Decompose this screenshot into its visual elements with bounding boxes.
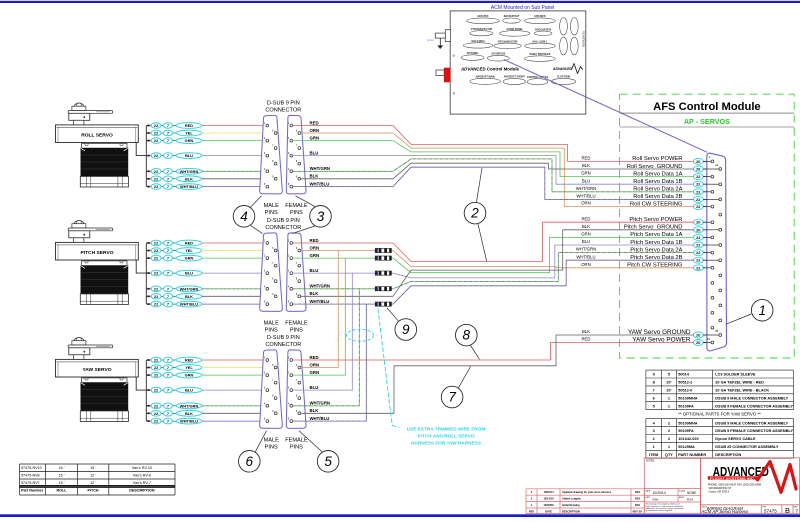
cyan note leader xyxy=(378,309,399,427)
balloon callout 7 xyxy=(441,386,463,408)
svg-text:20': 20' xyxy=(666,381,671,385)
svg-text:Van's RV-10: Van's RV-10 xyxy=(132,466,152,470)
svg-text:or used without written approv: or used without written approval. xyxy=(646,509,674,512)
ACM cutout AIRCRAFT FRONT xyxy=(503,76,525,85)
cyan splice highlight ellipse xyxy=(347,329,374,341)
svg-text:DESCRIPTION: DESCRIPTION xyxy=(129,489,155,493)
svg-text:50512-0: 50512-0 xyxy=(678,389,692,393)
svg-text:RED: RED xyxy=(581,337,590,342)
wire pitch BLK xyxy=(301,230,694,296)
title block frame xyxy=(701,458,800,514)
ACM cutout PANEL SWITCHES xyxy=(525,53,556,61)
svg-text:20: 20 xyxy=(696,167,700,172)
roll wire gauge leads xyxy=(136,123,202,190)
wire roll BLK xyxy=(301,163,694,179)
svg-text:DATE: DATE xyxy=(545,509,552,513)
svg-text:RS NETWORK: RS NETWORK xyxy=(582,31,585,48)
AFS row label Roll Servo GROUND xyxy=(627,164,722,172)
pitch servo xyxy=(56,221,139,305)
roll module wire color labels xyxy=(576,156,597,206)
svg-text:DSUB 9 FEMALE CONNECTOR ASSEMB: DSUB 9 FEMALE CONNECTOR ASSEMBLY xyxy=(715,429,793,433)
ACM ground symbol xyxy=(438,38,443,49)
svg-text:ORN: ORN xyxy=(581,201,591,206)
svg-text:5: 5 xyxy=(668,373,670,377)
pitch module wire color labels xyxy=(576,216,597,267)
ACM red connector xyxy=(436,68,450,82)
svg-text:15 ': 15 ' xyxy=(59,481,65,485)
svg-text:PHONE: (503) 263-6637 FAX: (: PHONE: (503) 263-6637 FAX: (503) 263-638… xyxy=(708,482,762,486)
wire pitch WHT/GRN xyxy=(293,253,694,289)
balloon 5 leader xyxy=(299,431,322,452)
notes / date block xyxy=(644,458,700,514)
svg-text:50109MNA: 50109MNA xyxy=(678,421,697,425)
svg-text:7: 7 xyxy=(795,509,798,515)
svg-text:DESCRIPTION: DESCRIPTION xyxy=(562,509,580,513)
svg-text:DSUB 25 CONNECTOR ASSEMBLY: DSUB 25 CONNECTOR ASSEMBLY xyxy=(715,445,779,449)
svg-text:326 REDWOOD ST: 326 REDWOOD ST xyxy=(709,486,732,490)
ACM cutout EFIS MFD xyxy=(525,15,556,24)
svg-text:101342-020: 101342-020 xyxy=(678,437,698,441)
balloon callout 1 xyxy=(751,299,773,321)
svg-text:Updated drawing for yaw servo: Updated drawing for yaw servo harness xyxy=(562,490,612,494)
svg-text:Part Number: Part Number xyxy=(21,489,44,493)
svg-text:DESCRIPTION: DESCRIPTION xyxy=(715,453,741,457)
balloon 4 leaders xyxy=(251,196,262,207)
svg-text:8: 8 xyxy=(463,328,471,343)
svg-text:USE EXTRA TRIMMED WIRE FROM: USE EXTRA TRIMMED WIRE FROM xyxy=(407,427,486,432)
AFS row label Pitch Servo Data 1A xyxy=(630,232,714,240)
solder sleeve at y=273.1 xyxy=(375,271,391,275)
ACM cutout NAV-COM-2 xyxy=(463,40,493,48)
wire pitch RED xyxy=(293,222,694,261)
svg-text:12 VDC: 12 VDC xyxy=(427,40,435,42)
svg-text:Canby, OR 97013: Canby, OR 97013 xyxy=(709,490,730,494)
svg-text:1: 1 xyxy=(668,404,670,408)
AFS logo ADVANCED xyxy=(708,465,774,480)
cyan note text xyxy=(407,427,486,446)
svg-text:57475-RV10: 57475-RV10 xyxy=(21,466,42,470)
svg-text:DSUB 9 MALE CONNECTOR ASSEMBLY: DSUB 9 MALE CONNECTOR ASSEMBLY xyxy=(715,396,788,400)
balloon 6 leader xyxy=(255,431,266,452)
svg-text:2: 2 xyxy=(470,206,479,221)
svg-text:50109MNA: 50109MNA xyxy=(678,396,697,400)
wire pitch GRN xyxy=(293,237,694,272)
pitch D-SUB 9 connector pair xyxy=(260,218,308,333)
ACM panel outline xyxy=(450,11,586,114)
wire roll WHT/GRN xyxy=(293,159,694,192)
svg-text:ORN: ORN xyxy=(581,262,591,267)
svg-text:12 ': 12 ' xyxy=(90,481,96,485)
pitch harness wire labels xyxy=(310,238,331,304)
svg-text:8: 8 xyxy=(653,381,655,385)
svg-text:ACM AP Servo Harness: ACM AP Servo Harness xyxy=(701,509,750,514)
DSUB25 unconnected pins xyxy=(711,213,722,329)
svg-text:QTY: QTY xyxy=(665,453,673,457)
svg-text:BLK: BLK xyxy=(582,224,590,229)
svg-text:15 ': 15 ' xyxy=(90,466,96,470)
balloon callout 3 xyxy=(310,206,332,228)
svg-text:20: 20 xyxy=(696,220,700,225)
AFS row label YAW Servo POWER xyxy=(632,336,714,345)
svg-text:50109FA: 50109FA xyxy=(678,429,694,433)
svg-text:BLK: BLK xyxy=(582,329,590,334)
solder sleeve at y=258.1 xyxy=(375,256,391,260)
AFS row label Roll CW STEERING xyxy=(630,201,714,209)
svg-text:REV BY: REV BY xyxy=(633,509,643,513)
svg-text:ROLL SERVO: ROLL SERVO xyxy=(81,133,113,139)
ACM cutout CONTROL STICKS xyxy=(527,76,549,85)
solder sleeve at y=304.1 xyxy=(375,302,391,306)
svg-text:ADVANCED: ADVANCED xyxy=(552,67,573,71)
AFS row label Roll Servo Data 1B xyxy=(633,179,721,187)
svg-text:2: 2 xyxy=(668,429,670,433)
AFS row label Pitch CW STEERING xyxy=(627,263,714,271)
svg-text:BLU: BLU xyxy=(582,178,590,183)
svg-text:10/20/14: 10/20/14 xyxy=(653,491,666,495)
roll input wires to male pins xyxy=(202,126,274,187)
ACM cutout EFIS PFD xyxy=(467,15,500,24)
svg-text:3: 3 xyxy=(317,209,325,224)
ACM cutout GPS NAVIGATOR xyxy=(494,40,521,48)
svg-text:5: 5 xyxy=(324,454,332,469)
wire yaw ORN riser to splice xyxy=(301,251,339,368)
svg-text:25: 25 xyxy=(715,329,719,333)
DSUB 25 connector shell xyxy=(707,153,727,351)
AFS row label Pitch Servo GROUND xyxy=(624,225,722,233)
AFS row label Roll Servo Data 2B xyxy=(633,194,721,202)
svg-text:6: 6 xyxy=(246,454,254,469)
svg-text:7: 7 xyxy=(448,390,456,405)
svg-text:WHT/BLU: WHT/BLU xyxy=(576,194,595,199)
address lines xyxy=(708,482,762,493)
parts table optional yaw xyxy=(646,370,794,410)
svg-text:50512-2: 50512-2 xyxy=(678,381,692,385)
svg-text:BLU: BLU xyxy=(582,239,590,244)
ACM cutout AP SERVOS xyxy=(487,53,509,62)
svg-text:50014: 50014 xyxy=(678,373,689,377)
ACM cutout AIRCRAFT MAIN xyxy=(470,75,501,84)
ACM small logo xyxy=(552,64,583,74)
wire yaw BLU riser to splice xyxy=(293,273,353,390)
svg-text:RED: RED xyxy=(581,216,590,221)
balloon 7 leader xyxy=(459,367,471,388)
yaw module wire color labels xyxy=(581,329,590,342)
svg-text:2: 2 xyxy=(668,437,670,441)
svg-text:1: 1 xyxy=(668,396,670,400)
svg-text:GRN: GRN xyxy=(581,171,591,176)
AFS row label Pitch Servo Data 1B xyxy=(630,240,721,248)
svg-text:13: 13 xyxy=(707,337,711,341)
AFS row label Pitch Servo Data 2B xyxy=(630,255,721,263)
svg-text:PITCH AND ROLL SERVO: PITCH AND ROLL SERVO xyxy=(418,434,475,439)
AFS row label Pitch Servo Data 2A xyxy=(630,247,714,255)
AFS logo red pulse xyxy=(758,462,797,493)
AFS Control Module dashed enclosure xyxy=(620,94,795,358)
svg-text:DSUB 9 MALE CONNECTOR ASSEMBLY: DSUB 9 MALE CONNECTOR ASSEMBLY xyxy=(715,421,788,425)
AFS row label Roll Servo Data 2A xyxy=(633,187,714,195)
AFS title separators xyxy=(620,112,795,114)
AFS row label YAW Servo GROUND xyxy=(628,329,722,338)
ACM cutout BACKUP EFIS xyxy=(534,28,552,35)
ACM cutout GTN750/GPS-COM xyxy=(470,28,493,36)
svg-text:WHT/GRN: WHT/GRN xyxy=(576,186,597,191)
wire pitch WHT/BLU xyxy=(293,260,694,304)
svg-text:YAW SERVO: YAW SERVO xyxy=(82,367,111,373)
svg-text:2: 2 xyxy=(668,421,670,425)
svg-text:57475: 57475 xyxy=(764,509,777,514)
balloon callout 6 xyxy=(239,451,261,473)
roll harness wire labels xyxy=(310,120,331,186)
wire yaw WHT/GRN riser to splice xyxy=(293,289,360,406)
ACM cutout FLAP TRIM xyxy=(551,76,575,85)
svg-text:PART NUMBER: PART NUMBER xyxy=(678,453,706,457)
roll servo xyxy=(56,103,139,187)
svg-text:RJH: RJH xyxy=(635,503,640,507)
svg-text:20: 20 xyxy=(696,340,700,345)
svg-text:20: 20 xyxy=(696,159,700,164)
parts table main xyxy=(646,419,794,459)
balloon callout 4 xyxy=(233,206,255,228)
svg-text:3: 3 xyxy=(653,429,655,433)
svg-text:LC3 SOLDER SLEEVE: LC3 SOLDER SLEEVE xyxy=(715,373,756,377)
svg-text:10/30/09: 10/30/09 xyxy=(543,503,554,507)
wire yaw GRN riser to splice xyxy=(293,258,346,375)
svg-text:1: 1 xyxy=(758,303,766,318)
svg-text:6: 6 xyxy=(653,396,655,400)
svg-text:GRN: GRN xyxy=(581,232,591,237)
svg-text:ACM Mounted on Sub Panel: ACM Mounted on Sub Panel xyxy=(491,5,554,11)
svg-text:ROLL: ROLL xyxy=(56,489,67,493)
svg-text:RJH: RJH xyxy=(635,490,640,494)
svg-text:5: 5 xyxy=(653,404,655,408)
wire yaw WHT/BLU riser to splice xyxy=(293,304,367,421)
balloon 3 leaders xyxy=(296,196,316,207)
svg-text:12/14/10: 12/14/10 xyxy=(543,497,554,501)
wire yaw RED to module xyxy=(293,343,694,361)
svg-text:RED: RED xyxy=(581,156,590,161)
svg-text:16 ': 16 ' xyxy=(59,466,65,470)
svg-text:BLK: BLK xyxy=(582,163,590,168)
svg-text:DRN: DRN xyxy=(646,497,651,499)
svg-text:RJH: RJH xyxy=(687,498,693,502)
svg-text:20': 20' xyxy=(666,389,671,393)
svg-text:Van's RV-8: Van's RV-8 xyxy=(133,474,151,478)
wire pitch ORN xyxy=(301,251,694,268)
svg-text:RJH: RJH xyxy=(653,498,659,502)
wire roll RED xyxy=(293,126,694,162)
svg-text:ADVANCED Control Module: ADVANCED Control Module xyxy=(460,67,520,72)
title text xyxy=(701,506,799,515)
ACM cutout AP PANEL xyxy=(461,52,484,60)
balloon 9 leader xyxy=(387,308,399,321)
balloon callout 5 xyxy=(317,451,339,473)
svg-text:1: 1 xyxy=(653,445,655,449)
svg-text:9: 9 xyxy=(402,322,410,337)
svg-text:REV: REV xyxy=(529,509,535,513)
yaw servo xyxy=(56,338,139,422)
svg-text:20: 20 xyxy=(696,227,700,232)
svg-text:4: 4 xyxy=(240,209,248,224)
sheet top border line xyxy=(0,1,800,3)
svg-text:Dynon SERVO CABLE: Dynon SERVO CABLE xyxy=(715,437,756,441)
svg-text:1: 1 xyxy=(668,445,670,449)
svg-text:HARNESS FOR YAW HARNESS: HARNESS FOR YAW HARNESS xyxy=(411,441,481,446)
DSUB25 pin numbers xyxy=(707,155,719,341)
svg-text:NOTES:: NOTES: xyxy=(646,460,655,463)
ACM power connector J1 xyxy=(427,30,451,43)
svg-text:57475-RV8: 57475-RV8 xyxy=(21,474,40,478)
solder sleeve at y=250.5 xyxy=(375,248,391,252)
wire yaw BLK to module xyxy=(301,335,694,413)
ACM vertical cutouts RS network xyxy=(560,18,585,55)
svg-text:WHT/BLU: WHT/BLU xyxy=(576,254,595,259)
svg-text:20 GA TEFZEL WIRE - BLACK: 20 GA TEFZEL WIRE - BLACK xyxy=(715,389,769,393)
svg-text:Van's RV-7: Van's RV-7 xyxy=(133,481,151,485)
balloon callout 2 xyxy=(464,202,486,224)
svg-text:PITCH SERVO: PITCH SERVO xyxy=(80,250,113,256)
svg-text:RJH: RJH xyxy=(635,497,640,501)
svg-text:7: 7 xyxy=(653,389,655,393)
balloon 1 leader xyxy=(726,314,751,324)
wire roll WHT/BLU xyxy=(293,167,694,199)
yaw input wires to male pins xyxy=(202,360,274,421)
ACM cutout BACKUP BAT xyxy=(503,15,521,23)
svg-text:Added Lengths: Added Lengths xyxy=(562,497,581,501)
wire pitch BLU xyxy=(293,245,694,278)
AP SERVOS leader line to DSUB25 xyxy=(504,60,707,153)
svg-text:B: B xyxy=(785,506,790,515)
ACM mounting holes xyxy=(453,55,455,94)
svg-text:9: 9 xyxy=(653,373,655,377)
svg-text:FLIGHT SYSTEMS INC.: FLIGHT SYSTEMS INC. xyxy=(710,476,755,480)
AFS row label Pitch Servo POWER xyxy=(629,217,713,225)
svg-text:** OPTIONAL PARTS FOR YAW SE: ** OPTIONAL PARTS FOR YAW SERVO ** xyxy=(678,411,761,416)
svg-text:SCALE: SCALE xyxy=(679,489,686,492)
ACM cutout NAV - COM-1 xyxy=(525,40,556,48)
ACM cutout AUDIO PANEL xyxy=(499,28,530,36)
AFS row label Roll Servo POWER xyxy=(632,156,714,164)
svg-text:DSUB 9 FEMALE CONNECTOR ASSEMB: DSUB 9 FEMALE CONNECTOR ASSEMBLY xyxy=(715,404,793,408)
solder sleeve at y=288.7 xyxy=(375,287,391,291)
balloon callout 9 xyxy=(395,319,417,341)
sheet bottom border bar xyxy=(0,514,800,517)
svg-text:14: 14 xyxy=(715,163,719,167)
yaw D-SUB 9 connector pair xyxy=(260,335,308,451)
svg-text:50125MA: 50125MA xyxy=(678,445,695,449)
harness variant table xyxy=(20,464,176,495)
svg-text:WHT/GRN: WHT/GRN xyxy=(576,247,597,252)
svg-text:PITCH: PITCH xyxy=(87,489,98,493)
svg-text:20 GA TEFZEL WIRE - RED: 20 GA TEFZEL WIRE - RED xyxy=(715,381,764,385)
roll D-SUB 9 connector pair xyxy=(260,100,308,216)
property disclaimer text xyxy=(646,503,684,513)
svg-text:AP - SERVOS: AP - SERVOS xyxy=(684,117,730,126)
svg-text:57475-RV7: 57475-RV7 xyxy=(21,481,40,485)
svg-text:APVD: APVD xyxy=(679,496,685,499)
balloon 8 leader xyxy=(471,346,480,360)
revision table xyxy=(526,489,644,514)
svg-text:2: 2 xyxy=(653,437,655,441)
svg-text:ITEM: ITEM xyxy=(649,453,658,457)
yaw harness wire labels xyxy=(310,355,331,421)
pitch input wires to male pins xyxy=(202,243,274,304)
svg-text:10/20/14: 10/20/14 xyxy=(543,490,554,494)
pitch wire gauge leads xyxy=(136,240,202,307)
balloon callout 8 xyxy=(456,324,478,346)
svg-text:NONE: NONE xyxy=(687,491,696,495)
wire roll ORN xyxy=(301,133,694,207)
svg-text:20: 20 xyxy=(696,333,700,338)
svg-text:AFS Control Module: AFS Control Module xyxy=(653,101,761,113)
svg-text:50109FA: 50109FA xyxy=(678,404,694,408)
svg-text:15 ': 15 ' xyxy=(59,474,65,478)
svg-text:DATE: DATE xyxy=(646,489,652,492)
svg-text:Initial Drawing: Initial Drawing xyxy=(562,503,580,507)
wire roll BLU xyxy=(293,156,694,185)
svg-text:12 ': 12 ' xyxy=(90,474,96,478)
balloon 2 leaders xyxy=(477,168,483,202)
wire roll GRN xyxy=(293,141,694,177)
yaw wire gauge leads xyxy=(136,357,202,424)
AFS row label Roll Servo Data 1A xyxy=(633,171,714,179)
